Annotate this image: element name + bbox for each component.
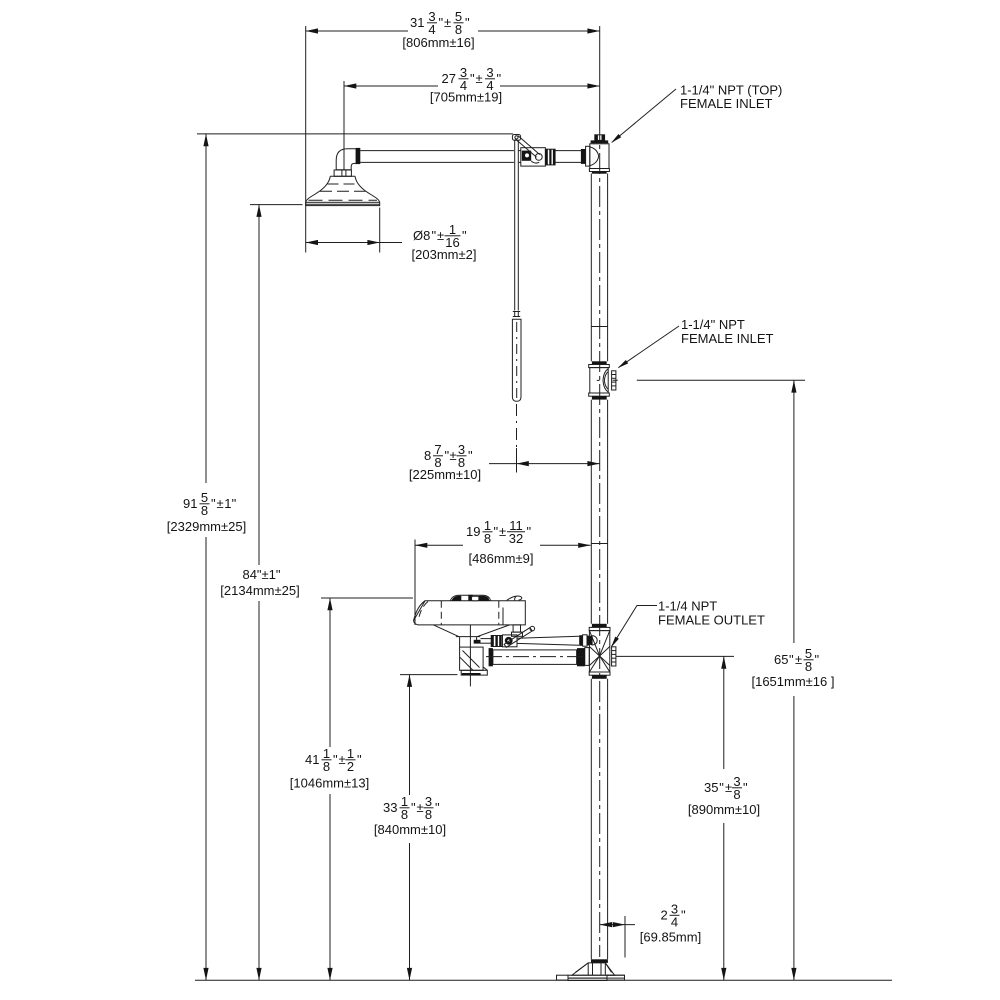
eyewash elbow block (460, 647, 484, 670)
cross left union band (585, 648, 589, 666)
shower head bell (306, 176, 380, 202)
extension line 2-3/4 (624, 916, 626, 958)
svg-text:": " (357, 752, 362, 767)
svg-text:8: 8 (805, 659, 812, 674)
svg-text:[1046mm±13]: [1046mm±13] (290, 776, 369, 791)
svg-text:33: 33 (383, 800, 397, 815)
svg-text:±: ± (476, 71, 483, 86)
eyewash standpipe (460, 637, 477, 648)
svg-text:": " (435, 800, 440, 815)
label 41-1/8 in (305, 746, 362, 774)
41-1/8 reference extension line (321, 597, 413, 599)
svg-text:": " (494, 524, 499, 539)
label 31-3/4 in (410, 9, 470, 37)
eyewash pipe centerline (486, 656, 584, 658)
shower head rim (306, 202, 380, 205)
svg-text:[890mm±10]: [890mm±10] (688, 802, 760, 817)
svg-text:": " (719, 780, 724, 795)
label 27-3/4 in (442, 65, 502, 93)
top tee bottom flange (589, 169, 609, 174)
shower valve body (521, 148, 546, 166)
dim line 35 vertical (721, 656, 726, 980)
svg-text:19: 19 (466, 524, 480, 539)
svg-text:41: 41 (305, 752, 319, 767)
extension line shower head left (305, 26, 307, 253)
svg-text:1-1/4 NPT: 1-1/4 NPT (658, 599, 717, 614)
svg-text:27: 27 (442, 71, 456, 86)
extension line shower center (343, 81, 345, 170)
svg-text:": " (527, 524, 532, 539)
label 19-1/8 in (466, 518, 532, 546)
shower valve union (ribbed) (545, 149, 555, 165)
top tee cap flange (591, 140, 609, 143)
svg-text:31: 31 (410, 15, 424, 30)
svg-text:8: 8 (201, 503, 208, 518)
bowl right fitting (507, 596, 522, 600)
eyewash valve (502, 635, 517, 647)
dim line 91-5/8 vertical (203, 134, 208, 980)
svg-text:[840mm±10]: [840mm±10] (374, 822, 446, 837)
svg-text:": " (462, 228, 467, 243)
label 65 in (774, 646, 820, 674)
svg-text:": " (743, 780, 748, 795)
svg-text:35: 35 (704, 780, 718, 795)
svg-text:8: 8 (425, 807, 432, 822)
svg-text:": " (232, 496, 237, 511)
65in reference extension line (613, 379, 805, 381)
cross right threaded opening (612, 647, 616, 666)
svg-text:": " (465, 15, 470, 30)
bowl supply nipple (512, 625, 523, 636)
label dia 8 in (413, 222, 467, 250)
riser centerline (599, 120, 601, 957)
bowl underside cone (434, 625, 510, 637)
svg-text:1: 1 (224, 496, 231, 511)
eyewash horizontal pipe (489, 648, 585, 666)
svg-text:": " (411, 800, 416, 815)
svg-text:FEMALE INLET: FEMALE INLET (681, 331, 774, 346)
dim line dia 8 (306, 240, 402, 245)
svg-text:": " (439, 15, 444, 30)
33-1/8 reference extension line (400, 674, 458, 676)
dim line 19-1/8 (415, 543, 591, 548)
label top female inlet (680, 83, 782, 112)
svg-text:91: 91 (183, 496, 197, 511)
svg-text:±: ± (499, 524, 506, 539)
ground line (195, 979, 892, 981)
dim line 33-1/8 vertical (407, 675, 412, 981)
extension line 19-1/8 left (414, 540, 416, 626)
dim line 41-1/8 vertical (327, 598, 332, 980)
svg-text:32: 32 (509, 531, 523, 546)
label 91-5/8 in (183, 490, 237, 518)
shower arm pipe (360, 151, 581, 163)
riser pipe lower segment (591, 679, 607, 960)
valve lever arm (515, 136, 540, 158)
eyewash elbow outlet flange (461, 667, 487, 675)
svg-text:[705mm±19]: [705mm±19] (430, 90, 502, 105)
svg-text:[1651mm±16 ]: [1651mm±16 ] (751, 674, 834, 689)
eyewash supply pipe (517, 636, 579, 645)
pull rod handle (512, 319, 521, 401)
svg-text:2: 2 (347, 759, 354, 774)
svg-text:±: ± (417, 800, 424, 815)
svg-text:±: ± (339, 752, 346, 767)
base plate (557, 975, 625, 980)
supply pipe union nut (579, 635, 589, 646)
svg-text:±: ± (437, 228, 444, 243)
standpipe nut (474, 640, 481, 644)
svg-text:65: 65 (774, 652, 788, 667)
middle tee body (1-1/4 NPT female inlet) (590, 368, 616, 393)
rod extension centerline (516, 404, 518, 447)
svg-text:": " (470, 71, 475, 86)
eyewash bowl (414, 601, 526, 625)
svg-text:": " (815, 652, 820, 667)
leader top inlet (611, 89, 676, 143)
svg-text:Ø8: Ø8 (413, 228, 430, 243)
svg-text:2: 2 (661, 908, 668, 923)
leader outlet (611, 606, 657, 648)
svg-text:±: ± (725, 780, 732, 795)
svg-text:±: ± (450, 448, 457, 463)
label 2-3/4 in (661, 902, 687, 930)
extension line riser centerline top (599, 26, 601, 120)
valve inlet nipple (481, 639, 492, 644)
svg-text:±: ± (444, 15, 451, 30)
top tee cap nut (595, 135, 605, 141)
dim line 31-3/4 (306, 28, 600, 33)
eyewash spray heads (450, 595, 491, 601)
middle tee top flange (589, 361, 610, 367)
svg-text:[2329mm±25]: [2329mm±25] (167, 519, 246, 534)
svg-text:[69.85mm]: [69.85mm] (640, 930, 701, 945)
dim line 84 vertical (256, 205, 261, 981)
elbow hex nut (334, 170, 351, 176)
svg-text:": " (211, 496, 216, 511)
extension line shower head right (379, 208, 381, 253)
svg-text:": " (432, 228, 437, 243)
top reference extension line (91-5/8) (197, 133, 513, 135)
pull rod (513, 140, 520, 316)
riser pipe middle segment (591, 400, 607, 624)
svg-text:": " (497, 71, 502, 86)
label female outlet (658, 599, 765, 628)
svg-text:4: 4 (671, 915, 678, 930)
svg-text:[486mm±9]: [486mm±9] (469, 551, 534, 566)
label middle female inlet (681, 317, 774, 346)
svg-text:": " (681, 908, 686, 923)
eyewash cross top flange (589, 624, 610, 631)
pull rod pivot (512, 135, 520, 141)
dim line 65 vertical (791, 380, 796, 980)
svg-text:[225mm±10]: [225mm±10] (409, 467, 481, 482)
35in reference extension line (616, 655, 734, 657)
dim line 2-3/4 (600, 922, 635, 927)
svg-text:84"±1": 84"±1" (242, 567, 280, 582)
label 8-7/8 in (424, 442, 473, 470)
eyewash lever handle (504, 626, 534, 647)
svg-text:±: ± (217, 496, 224, 511)
eyewash valve union (ribbed) (491, 636, 502, 647)
STRUCTURE (306, 120, 625, 981)
svg-text:1-1/4" NPT: 1-1/4" NPT (681, 317, 745, 332)
dim line 27-3/4 (344, 83, 600, 88)
svg-text:[2134mm±25]: [2134mm±25] (220, 583, 299, 598)
riser pipe upper segment (591, 174, 607, 362)
eyewash centerline vertical (469, 625, 471, 687)
svg-text:FEMALE INLET: FEMALE INLET (680, 96, 773, 111)
svg-text:": " (468, 448, 473, 463)
84in reference extension line (250, 204, 303, 206)
svg-text:8: 8 (733, 787, 740, 802)
elbow union (356, 148, 361, 164)
leader middle inlet (618, 326, 680, 368)
svg-text:[806mm±16]: [806mm±16] (402, 35, 474, 50)
middle tee right threaded opening (612, 371, 616, 390)
DIMENSIONS (195, 26, 892, 980)
eyewash cross body (1-1/4 NPT female outlet) (585, 631, 616, 672)
arm union at tee (581, 149, 586, 164)
svg-text:8: 8 (323, 759, 330, 774)
svg-text:[203mm±2]: [203mm±2] (412, 247, 477, 262)
svg-text:±: ± (795, 652, 802, 667)
extension line pull rod (516, 448, 518, 473)
svg-text:8: 8 (401, 807, 408, 822)
top tee body U1 (586, 144, 609, 169)
svg-text:": " (789, 652, 794, 667)
base gussets (572, 963, 615, 975)
supply pipe ball (588, 636, 597, 645)
svg-text:": " (333, 752, 338, 767)
eyewash cross bottom flange (589, 672, 610, 679)
base collar (591, 959, 608, 963)
svg-text:FEMALE OUTLET: FEMALE OUTLET (658, 613, 765, 628)
dim line 8-7/8 (489, 461, 600, 466)
shower elbow (336, 149, 356, 170)
middle tee bottom flange (589, 393, 610, 400)
svg-text:8: 8 (424, 448, 431, 463)
label 35 in (704, 774, 748, 802)
label 33-1/8 in (383, 794, 440, 822)
svg-text:8: 8 (484, 531, 491, 546)
